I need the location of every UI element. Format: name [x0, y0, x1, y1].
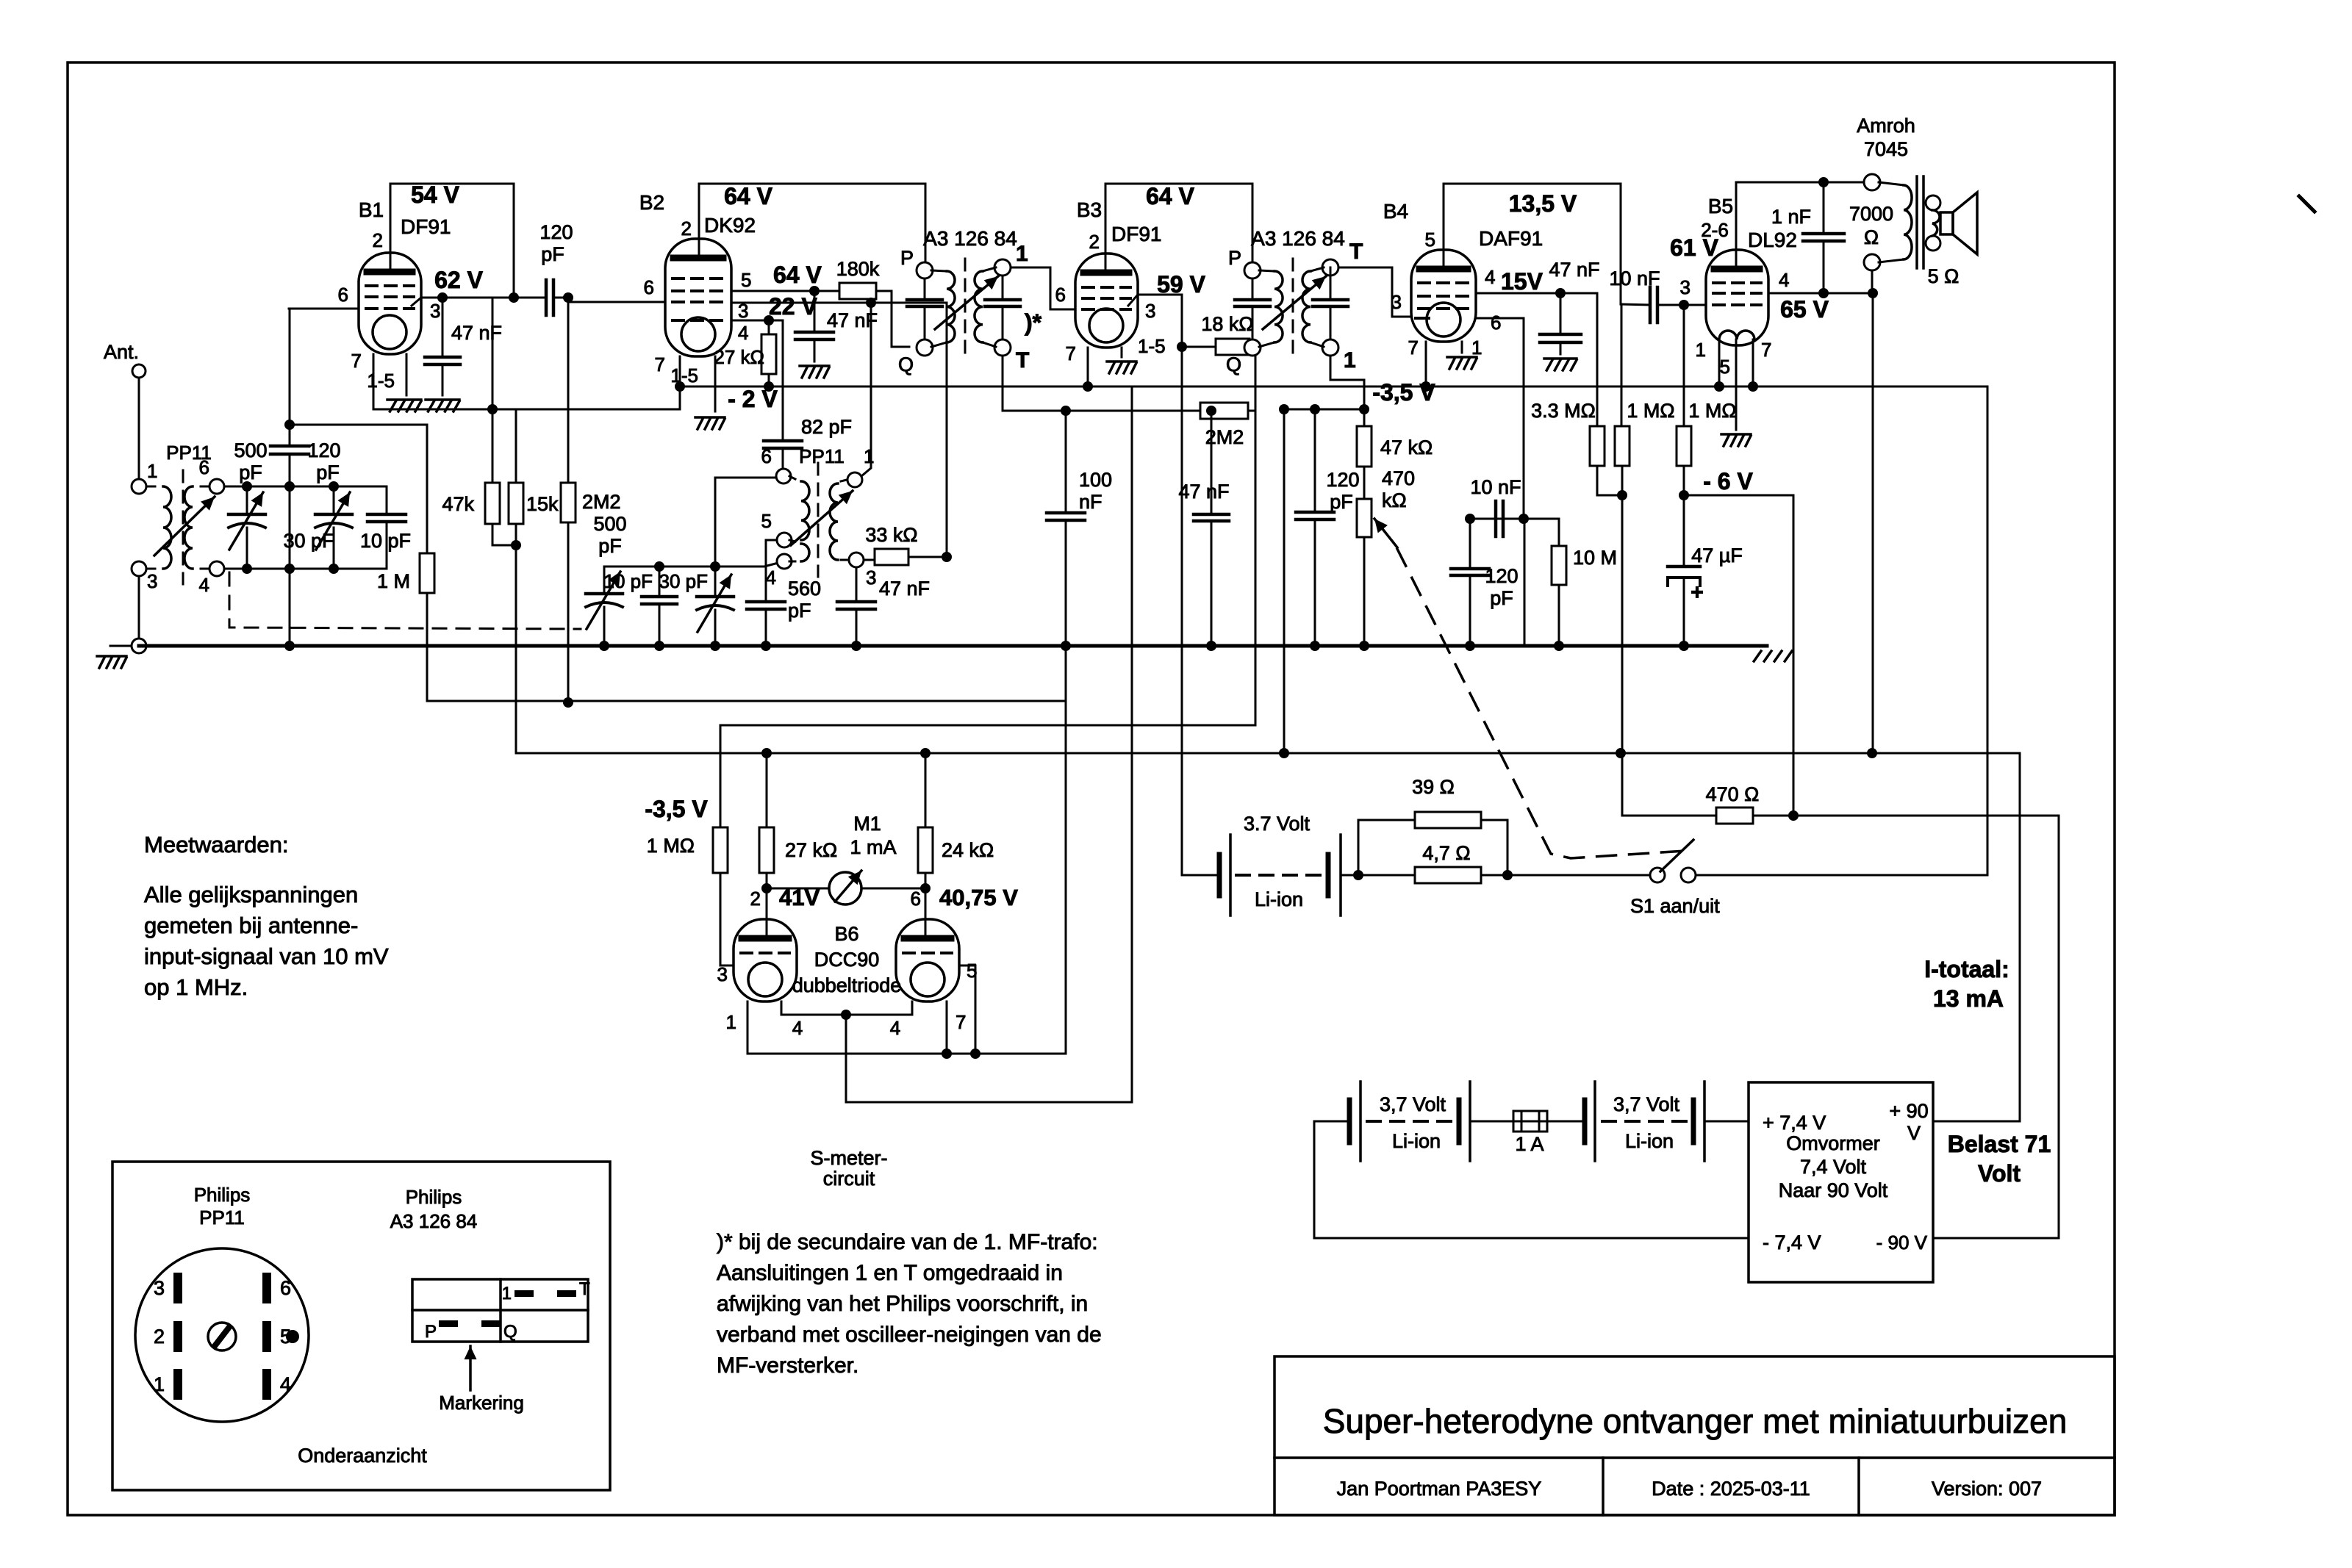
svg-text:120: 120	[307, 439, 340, 461]
svg-text:T: T	[1349, 240, 1363, 264]
svg-text:500: 500	[234, 439, 267, 461]
svg-text:15k: 15k	[526, 493, 559, 515]
svg-text:MF-versterker.: MF-versterker.	[717, 1353, 858, 1378]
node 27k bottom	[764, 381, 774, 392]
node 27k top	[764, 315, 774, 326]
node B5 65V a	[1818, 288, 1829, 298]
capacitor 47uF electrolytic	[1683, 495, 1685, 567]
svg-text:82 pF: 82 pF	[801, 416, 852, 438]
ground at bus left	[110, 645, 132, 647]
switch S1	[1650, 868, 1665, 882]
svg-text:2: 2	[750, 888, 761, 910]
svg-text:pF: pF	[598, 535, 622, 557]
antenna coil secondary terminal 4	[209, 561, 224, 576]
svg-text:1: 1	[154, 1373, 165, 1395]
resistor 180k	[839, 283, 876, 299]
svg-text:4,7 Ω: 4,7 Ω	[1422, 842, 1470, 864]
svg-text:3: 3	[430, 300, 440, 322]
wire osc pin6 left-down	[715, 478, 776, 567]
svg-text:op 1 MHz.: op 1 MHz.	[144, 974, 248, 1000]
svg-text:4: 4	[792, 1017, 803, 1039]
svg-text:1: 1	[147, 460, 157, 482]
ground bus	[139, 644, 1767, 648]
svg-text:62 V: 62 V	[434, 267, 483, 293]
tube B6b DCC90	[896, 919, 959, 1001]
node 470 -6V	[1788, 810, 1799, 821]
output transformer terminals	[1864, 174, 1880, 190]
svg-text:54 V: 54 V	[411, 181, 459, 208]
svg-text:47 nF: 47 nF	[879, 578, 930, 600]
svg-text:33 kΩ: 33 kΩ	[865, 524, 917, 546]
resistor 4,7 Ohm	[1415, 867, 1481, 883]
svg-text:- 90 V: - 90 V	[1876, 1231, 1928, 1254]
svg-text:7,4 Volt: 7,4 Volt	[1800, 1156, 1867, 1178]
svg-text:6: 6	[1055, 284, 1066, 306]
wire x2074 segment	[1524, 519, 1526, 644]
svg-text:4: 4	[280, 1373, 291, 1395]
svg-text:40,75 V: 40,75 V	[939, 885, 1018, 910]
node B3 pin7	[1083, 381, 1093, 392]
svg-text:Li-ion: Li-ion	[1392, 1130, 1441, 1152]
svg-text:470: 470	[1382, 467, 1415, 489]
svg-text:DAF91: DAF91	[1479, 227, 1543, 250]
battery 3.7V Li-ion	[1217, 855, 1222, 896]
node bus x394	[284, 641, 295, 651]
svg-text:DCC90: DCC90	[814, 949, 880, 971]
title block	[1274, 1356, 2115, 1515]
B5 filament pins	[1718, 339, 1721, 386]
tube B6a DCC90	[734, 919, 797, 1001]
svg-text:6: 6	[911, 888, 921, 910]
svg-text:B4: B4	[1383, 200, 1408, 223]
B6b pin7 down	[946, 1001, 948, 1054]
battery2 3,7V Li-ion first	[1347, 1100, 1352, 1143]
svg-text:1-5: 1-5	[1138, 335, 1166, 357]
wire pin4 down to 3.3M	[1596, 293, 1599, 426]
node - join	[1617, 490, 1627, 500]
svg-text:3: 3	[1680, 276, 1690, 298]
wire -3,5V line	[1284, 409, 1364, 411]
svg-text:B6: B6	[834, 923, 858, 945]
node -6V	[1679, 490, 1689, 500]
wire osc pin3 down to 47nF	[856, 567, 858, 602]
svg-text:Belast 71: Belast 71	[1948, 1131, 2051, 1157]
node x670 on filament	[487, 404, 498, 414]
svg-text:1 MΩ: 1 MΩ	[647, 835, 695, 857]
svg-text:4: 4	[199, 574, 209, 596]
wire -90V port	[1933, 1237, 2059, 1240]
IF2 terminal 1	[1322, 339, 1338, 356]
node tank bottom C1	[242, 564, 252, 574]
svg-text:13,5 V: 13,5 V	[1509, 190, 1577, 217]
tube B2 DK92	[665, 239, 731, 356]
svg-text:pF: pF	[316, 461, 340, 483]
wire B+ to +90V	[2019, 753, 2021, 1121]
B6b pin5 out	[959, 965, 975, 967]
node 33k out	[942, 552, 952, 562]
svg-text:1 mA: 1 mA	[850, 836, 896, 858]
svg-text:30 pF: 30 pF	[283, 530, 334, 552]
wire B2 grid vertical	[567, 298, 570, 702]
svg-text:nF: nF	[1079, 491, 1102, 513]
wire -90V up	[2058, 816, 2060, 1238]
node B+ x2547	[1867, 748, 1877, 758]
node 1nF rail	[1818, 177, 1829, 187]
svg-text:47 µF: 47 µF	[1691, 544, 1743, 567]
dashed AVC line	[229, 572, 581, 629]
svg-text:5: 5	[967, 960, 977, 982]
svg-text:Li-ion: Li-ion	[1255, 888, 1303, 910]
svg-text:PP11: PP11	[199, 1206, 245, 1229]
IF1 tuning arrow	[935, 276, 998, 329]
svg-text:Q: Q	[503, 1322, 517, 1342]
wire B1 pin3 out	[412, 298, 421, 306]
wire B4 pin1 ground	[1461, 342, 1463, 353]
tube B3 DF91	[1075, 253, 1138, 348]
node 10nF x2000	[1465, 514, 1475, 524]
svg-text:Aansluitingen 1 en T omgedraai: Aansluitingen 1 en T omgedraaid in	[717, 1261, 1063, 1285]
capacitor 47nF B4	[1560, 293, 1562, 334]
svg-text:- 2 V: - 2 V	[728, 386, 778, 412]
resistor 27k B2	[761, 334, 776, 374]
resistor 33k	[864, 559, 875, 561]
node B2 pin7	[675, 381, 685, 392]
svg-text:Date : 2025-03-11: Date : 2025-03-11	[1652, 1478, 1810, 1500]
A3 126 84 footprint diagram	[412, 1279, 588, 1342]
resistor 2M2 B3	[1200, 403, 1248, 419]
wire B4 pin4 out 15V	[1476, 292, 1597, 295]
meter M1 1mA	[767, 888, 829, 890]
resistor 1M second	[1677, 426, 1691, 466]
node 47k-15k join	[511, 540, 521, 550]
IF1 terminal Q	[917, 339, 933, 356]
node B4 pin7	[1421, 381, 1431, 392]
wire transformer bottom to 65V	[1871, 270, 1874, 293]
svg-text:47 nF: 47 nF	[451, 322, 502, 344]
antenna coil tuning arrow	[154, 497, 215, 555]
svg-text:120: 120	[1326, 469, 1359, 491]
resistor 24k B6	[925, 753, 927, 827]
svg-text:7045: 7045	[1864, 138, 1908, 160]
antenna coil PP11 primary terminal 1	[132, 479, 146, 494]
svg-text:V: V	[1907, 1122, 1921, 1144]
stray mark top right	[2299, 196, 2315, 212]
capacitor 10nF AF coupling	[1496, 518, 1524, 520]
svg-text:47 kΩ: 47 kΩ	[1380, 436, 1433, 458]
B6 cathode line	[747, 1053, 1066, 1055]
svg-text:6: 6	[761, 445, 772, 467]
wire 2M2 right to Q2	[1248, 356, 1255, 411]
svg-text:-3,5 V: -3,5 V	[1372, 379, 1435, 406]
svg-text:3: 3	[1145, 300, 1155, 322]
svg-text:120: 120	[1485, 565, 1518, 587]
wire B2 pin6	[568, 301, 665, 303]
wire B4 plate rail	[1443, 184, 1445, 267]
svg-text:5: 5	[741, 269, 751, 291]
wire +90V port	[1933, 1121, 2020, 1123]
capacitor 47nF B1	[442, 298, 444, 357]
svg-text:10 pF: 10 pF	[604, 570, 653, 592]
svg-text:1: 1	[1471, 337, 1482, 359]
IF1 terminal T	[994, 339, 1011, 356]
node B6 pin7r	[942, 1049, 952, 1059]
B+ line	[516, 752, 2020, 755]
svg-text:3: 3	[866, 567, 876, 589]
svg-text:64 V: 64 V	[724, 183, 772, 209]
svg-text:M1: M1	[853, 813, 881, 835]
svg-text:10 nF: 10 nF	[1609, 267, 1660, 289]
svg-text:1 MΩ: 1 MΩ	[1688, 400, 1736, 422]
svg-text:pF: pF	[788, 600, 811, 622]
wire tank bottom	[224, 568, 387, 570]
svg-text:1: 1	[1016, 242, 1028, 266]
node B3 18k	[1177, 342, 1187, 352]
svg-text:afwijking van het Philips voor: afwijking van het Philips voorschrift, i…	[717, 1292, 1088, 1316]
svg-text:Super-heterodyne ontvanger met: Super-heterodyne ontvanger met miniatuur…	[1323, 1402, 2068, 1440]
wire B1 pin6 left	[289, 308, 359, 310]
svg-text:2: 2	[373, 229, 383, 251]
IF1 secondary coil	[975, 271, 983, 342]
node 4,7 right	[1502, 870, 1513, 880]
socket key	[208, 1323, 236, 1351]
node 100nF bus	[1061, 641, 1071, 651]
wire IF2 sec1 down to -3,5V node	[1330, 356, 1364, 409]
svg-text:pF: pF	[239, 461, 262, 483]
wire x1747 down to B+ line	[1283, 409, 1286, 753]
svg-text:3: 3	[147, 570, 157, 592]
svg-text:Ω: Ω	[1864, 226, 1879, 248]
svg-text:39 Ω: 39 Ω	[1412, 776, 1455, 798]
wire -7,4V loop	[1314, 1121, 1749, 1238]
svg-text:1: 1	[502, 1284, 512, 1303]
IF1 core	[964, 259, 967, 356]
potentiometer 470 kOhm	[1357, 499, 1372, 537]
svg-text:27 kΩ: 27 kΩ	[785, 839, 837, 861]
svg-text:3: 3	[717, 963, 728, 985]
wire battery2 left	[1314, 1121, 1349, 1123]
svg-text:2: 2	[154, 1326, 165, 1348]
node 39ohm left	[1353, 870, 1363, 880]
svg-text:10 M: 10 M	[1573, 547, 1617, 569]
svg-text:pF: pF	[1330, 491, 1353, 513]
svg-text:gemeten bij antenne-: gemeten bij antenne-	[144, 913, 358, 938]
wire B4 pin6 out	[1476, 317, 1524, 320]
svg-text:S-meter-: S-meter-	[810, 1147, 887, 1169]
capacitor 82pF	[764, 439, 802, 443]
svg-text:41V: 41V	[779, 885, 820, 910]
svg-text:10 pF: 10 pF	[360, 530, 411, 552]
wire B2 pin4 out	[731, 320, 783, 322]
tube B1 DF91	[359, 253, 421, 354]
node 10nF x2073	[1519, 514, 1529, 524]
IF1 primary cap	[924, 278, 926, 300]
resistor 470 Ohm	[1716, 808, 1753, 824]
wire B1 grid return	[290, 424, 427, 426]
wire 100nF below bus	[1065, 646, 1067, 701]
svg-text:Volt: Volt	[1978, 1160, 2021, 1187]
wire B5 pin4 out 65V	[1768, 292, 1873, 295]
svg-text:2: 2	[1089, 231, 1100, 253]
wire B3 pin7	[1087, 348, 1089, 386]
filament line right end	[1987, 386, 1989, 875]
svg-text:A3 126 84: A3 126 84	[1251, 227, 1345, 250]
svg-text:4: 4	[766, 567, 776, 589]
svg-text:DL92: DL92	[1748, 229, 1797, 251]
output transformer core	[1915, 176, 1918, 268]
wire B1 plate to rail	[390, 184, 392, 270]
wire B3 plate rail	[1105, 184, 1107, 271]
wire B3 pin3 out	[1128, 295, 1138, 306]
pin 5 index dot	[286, 1330, 299, 1343]
capacitor 500/120 pF antenna series	[289, 309, 291, 446]
capacitor 100nF	[1065, 411, 1067, 513]
svg-text:560: 560	[788, 578, 821, 600]
svg-text:3.7 Volt: 3.7 Volt	[1244, 813, 1311, 835]
output transformer secondary	[1926, 195, 1940, 210]
battery2 second	[1582, 1100, 1588, 1143]
svg-text:47 nF: 47 nF	[1178, 481, 1229, 503]
B6a pin1 down	[747, 1001, 749, 1054]
resistor 39 Ohm	[1358, 820, 1415, 875]
wire B2 plate to rail	[698, 184, 700, 257]
svg-text:4: 4	[890, 1017, 900, 1039]
svg-text:- 6 V: - 6 V	[1703, 468, 1753, 495]
svg-text:24 kΩ: 24 kΩ	[942, 839, 994, 861]
svg-text:30 pF: 30 pF	[659, 570, 709, 592]
wire B2 pin4 down to 82pF	[782, 320, 784, 441]
tube B5 DL92	[1706, 250, 1768, 345]
omvormer box	[1749, 1082, 1933, 1282]
wire battery1 left	[1182, 874, 1219, 877]
svg-text:P: P	[425, 1322, 437, 1342]
wire antenna down	[138, 378, 140, 479]
svg-text:I-totaal:: I-totaal:	[1924, 956, 2009, 982]
node -3,5V x1856	[1359, 404, 1369, 414]
svg-text:3: 3	[1391, 291, 1402, 313]
output transformer primary	[1904, 185, 1912, 259]
svg-text:Alle gelijkspanningen: Alle gelijkspanningen	[144, 882, 358, 907]
svg-text:1-5: 1-5	[367, 370, 395, 392]
resistor 2M2 B1 area	[561, 483, 576, 522]
svg-text:DF91: DF91	[401, 215, 451, 238]
svg-text:7: 7	[955, 1011, 966, 1033]
oscillator coil arrow	[791, 491, 853, 545]
svg-text:Amroh: Amroh	[1857, 115, 1915, 137]
wire B4 coupling to B5 pin3	[1677, 304, 1706, 306]
wire -3,5V link	[720, 724, 1255, 727]
IF2 primary cap	[1252, 278, 1254, 300]
svg-text:5: 5	[1425, 229, 1435, 251]
node meter right	[920, 883, 931, 893]
wire B2 pin 1-5 ground	[714, 356, 717, 411]
svg-text:+ 90: + 90	[1889, 1100, 1928, 1122]
node B2 grid feed	[563, 292, 573, 303]
capacitor 47nF B2	[814, 291, 816, 332]
wire filament to B6	[846, 386, 1132, 1102]
svg-text:S1 aan/uit: S1 aan/uit	[1630, 895, 1720, 917]
svg-text:22 V: 22 V	[769, 293, 817, 320]
IF2 tuning arrow	[1263, 276, 1326, 329]
wire filament line B1-B2	[373, 409, 680, 411]
wire B3 pin 1-5 ground	[1121, 348, 1123, 357]
wire battery1 right	[1341, 874, 1415, 877]
variable capacitor 500pF osc	[603, 567, 606, 594]
IF1 secondary cap	[1002, 276, 1004, 300]
variable capacitor 30pF osc	[710, 561, 720, 572]
svg-text:-3,5 V: -3,5 V	[645, 796, 708, 822]
capacitor 10pF antenna	[386, 486, 388, 514]
resistor 18k	[1182, 346, 1216, 348]
svg-text:T: T	[1016, 348, 1029, 373]
resistor 15k	[515, 409, 517, 483]
dashed line pot to S1	[1397, 549, 1685, 858]
svg-text:3,7 Volt: 3,7 Volt	[1613, 1093, 1680, 1115]
variable capacitor 500pF antenna	[246, 486, 248, 514]
IF2 terminal P	[1244, 262, 1261, 278]
svg-text:470 Ω: 470 Ω	[1706, 783, 1760, 805]
svg-text:1 MΩ: 1 MΩ	[1627, 400, 1674, 422]
svg-text:120: 120	[539, 221, 573, 243]
resistor 10M	[1524, 519, 1559, 546]
svg-text:180k: 180k	[836, 258, 880, 280]
resistor 47k	[492, 409, 494, 483]
svg-text:B2: B2	[639, 191, 664, 214]
capacitor 120pF AVC	[1314, 409, 1316, 512]
svg-text:A3 126 84: A3 126 84	[390, 1210, 478, 1232]
svg-text:Meetwaarden:: Meetwaarden:	[144, 832, 288, 857]
resistor 1M first	[1615, 426, 1629, 466]
osc padder line	[604, 564, 775, 567]
IF2 secondary cap	[1330, 276, 1332, 300]
svg-text:pF: pF	[1490, 587, 1513, 609]
IF2 terminal T	[1322, 259, 1338, 276]
svg-text:)*: )*	[1025, 309, 1042, 336]
node 47nF B1	[437, 292, 448, 303]
svg-text:Jan Poortman PA3ESY: Jan Poortman PA3ESY	[1337, 1478, 1542, 1500]
S1 wire right	[1696, 874, 1987, 877]
svg-text:7: 7	[1066, 342, 1076, 364]
node tank top x394	[284, 481, 295, 492]
IF2 secondary coil	[1302, 271, 1311, 342]
wire anode feed down	[492, 298, 494, 409]
svg-text:kΩ: kΩ	[1382, 489, 1407, 511]
PP11 socket circle	[135, 1248, 309, 1422]
node B2 47nF	[809, 286, 820, 296]
svg-text:+ 7,4 V: + 7,4 V	[1763, 1112, 1826, 1134]
wire osc pin5 to 560pF	[766, 540, 777, 602]
svg-text:Naar 90 Volt: Naar 90 Volt	[1779, 1179, 1888, 1201]
wire rail down to node	[513, 184, 515, 298]
antenna coil PP11 terminal 3	[132, 561, 146, 576]
svg-text:100: 100	[1079, 469, 1112, 491]
svg-text:dubbeltriode: dubbeltriode	[792, 974, 902, 996]
resistor 47 kOhm	[1363, 409, 1366, 426]
svg-text:64 V: 64 V	[1146, 183, 1194, 209]
svg-text:verband met oscilleer-neiginge: verband met oscilleer-neigingen van de	[717, 1323, 1102, 1347]
capacitor 120pF AF	[1469, 519, 1471, 569]
svg-text:+: +	[1690, 580, 1704, 605]
svg-text:6: 6	[280, 1277, 291, 1299]
svg-text:1: 1	[1696, 339, 1706, 361]
wire T2 to B4 pin3	[1330, 267, 1332, 276]
svg-text:DF91: DF91	[1111, 223, 1161, 245]
svg-text:64 V: 64 V	[773, 262, 822, 288]
svg-text:65 V: 65 V	[1780, 296, 1829, 323]
svg-text:7: 7	[1408, 337, 1419, 359]
svg-text:Philips: Philips	[406, 1186, 462, 1208]
svg-text:pF: pF	[541, 243, 564, 265]
svg-text:- 7,4 V: - 7,4 V	[1763, 1231, 1821, 1254]
